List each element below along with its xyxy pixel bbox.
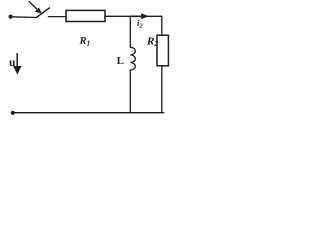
node: bottom-left input terminal: [11, 111, 15, 115]
svg-text:R1: R1: [79, 36, 91, 48]
svg-text:u: u: [9, 57, 16, 69]
wire: L branch lower segment (coil to bottom wire): [129, 70, 131, 113]
voltage reference arrow for u: [13, 54, 21, 75]
wire: R1 to top-right corner: [105, 15, 162, 17]
current arrow i2: [131, 13, 149, 19]
switch actuation arrow: [29, 2, 42, 14]
svg-text:L: L: [117, 55, 124, 67]
resistor R1: [66, 10, 105, 21]
resistor R2: [157, 35, 168, 66]
wire: top-left segment from terminal to switch: [11, 16, 36, 19]
wire: switch to resistor R1: [48, 16, 66, 18]
wire: right branch lower segment (R2 to bottom wire): [161, 66, 163, 113]
wire: bottom return conductor: [12, 112, 164, 114]
switch S blade (open, closing): [36, 8, 49, 18]
wire: L branch upper segment (junction to coil): [129, 16, 131, 47]
inductor L coil: [130, 47, 135, 70]
node: top-left input terminal: [9, 15, 13, 19]
wire: right branch upper segment (corner to R2): [161, 16, 163, 35]
